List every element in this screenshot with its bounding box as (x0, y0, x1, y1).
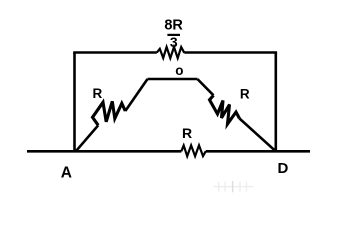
resistor R (left diagonal) (93, 101, 126, 125)
wire right vertical branch (274, 53, 277, 152)
wire resistor to node D (240, 119, 276, 152)
svg-text:R: R (240, 86, 250, 101)
svg-text:3: 3 (170, 34, 178, 50)
wire resistor to node o left corner (125, 79, 147, 111)
wire left vertical branch (73, 53, 76, 152)
svg-text:D: D (277, 160, 288, 177)
resistor R (right diagonal) (210, 95, 240, 124)
svg-text:A: A (61, 164, 72, 181)
wire bottom rail left segment (27, 150, 181, 153)
wire top right segment (184, 51, 277, 54)
svg-text:8R: 8R (164, 18, 183, 34)
wire node o horizontal segment (148, 78, 198, 81)
wire bottom rail right segment (206, 150, 310, 153)
resistor 8R/3 (top) (157, 47, 185, 58)
svg-text:R: R (93, 86, 103, 101)
svg-text:R: R (182, 125, 192, 141)
fraction bar (167, 34, 180, 36)
resistor R (bottom, between A and D) (181, 145, 206, 156)
wire diagonal A to resistor (76, 125, 98, 151)
svg-text:o: o (175, 63, 183, 78)
wire top left segment (73, 51, 157, 54)
wire node o right corner to resistor (197, 79, 213, 95)
